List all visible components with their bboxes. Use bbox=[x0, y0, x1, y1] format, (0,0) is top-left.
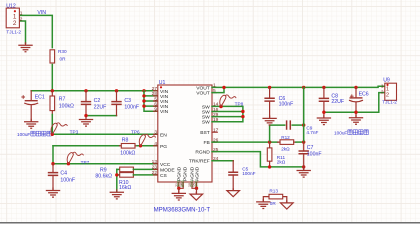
C8 labels bbox=[331, 94, 344, 106]
svg-text:22: 22 bbox=[152, 170, 158, 176]
svg-text:2: 2 bbox=[381, 90, 384, 96]
svg-text:3: 3 bbox=[154, 130, 157, 136]
U1 designator bbox=[159, 80, 166, 86]
TP8 label bbox=[235, 102, 244, 107]
U1 left pin numbers bbox=[152, 86, 158, 176]
svg-text:PG: PG bbox=[160, 144, 167, 150]
U1 bottom pin numbers bbox=[175, 183, 197, 187]
label 100uF chip electrolytic (left) bbox=[17, 131, 51, 137]
test point TP8 bbox=[220, 95, 236, 107]
U12 pin number 1 bbox=[20, 11, 23, 17]
wire VIN from U12 pin1 to R30 bbox=[19, 15, 52, 47]
EC1 designator bbox=[35, 95, 45, 101]
resistor R7 bbox=[50, 91, 55, 115]
R11 labels bbox=[277, 155, 286, 164]
svg-text:R9: R9 bbox=[100, 167, 107, 173]
U12 pin number 2 bbox=[20, 16, 23, 22]
U12 designator bbox=[6, 3, 16, 9]
svg-text:RGND: RGND bbox=[195, 150, 210, 156]
svg-text:1: 1 bbox=[20, 11, 23, 17]
capacitor EC6 bbox=[349, 87, 363, 112]
U1 bottom pins AGND bbox=[192, 182, 197, 188]
svg-text:13: 13 bbox=[152, 159, 158, 165]
svg-text:U9: U9 bbox=[383, 78, 390, 84]
svg-text:C4: C4 bbox=[60, 171, 67, 177]
svg-text:GND: GND bbox=[177, 179, 181, 187]
wire VOUT rail bbox=[212, 86, 385, 87]
svg-text:TP8: TP8 bbox=[235, 102, 244, 107]
C4 labels bbox=[60, 171, 75, 184]
junction dot PG/TP6 bbox=[139, 144, 142, 147]
C6 labels bbox=[279, 96, 294, 108]
net label VIN bbox=[37, 10, 46, 16]
svg-text:EN: EN bbox=[160, 132, 167, 138]
svg-text:VIN: VIN bbox=[160, 109, 169, 115]
svg-text:9: 9 bbox=[154, 107, 157, 113]
junction dots FB node bbox=[268, 140, 306, 143]
junction dots VCC line bbox=[51, 162, 70, 165]
U1 bottom pin names bbox=[177, 166, 201, 181]
resistor R30 bbox=[50, 50, 55, 63]
svg-text:U1: U1 bbox=[159, 80, 166, 86]
junction dots GND link bbox=[322, 111, 358, 114]
U1 bottom pins PGND bbox=[179, 182, 183, 188]
U9 value TJL1-2 bbox=[382, 100, 397, 105]
ground EC6 bbox=[349, 112, 363, 124]
resistor R12 bbox=[278, 140, 296, 145]
ground C8 bbox=[317, 112, 331, 124]
junction dots ground rail bbox=[268, 165, 306, 168]
wire SW pins bus bbox=[212, 106, 243, 121]
ground C5 triangle bbox=[227, 188, 240, 197]
svg-text:AGND: AGND bbox=[194, 166, 200, 181]
C2 labels bbox=[94, 98, 107, 111]
resistor R9 bbox=[117, 167, 158, 172]
R12 labels bbox=[281, 135, 290, 151]
R8 labels bbox=[120, 137, 135, 156]
ground EC1 bbox=[24, 119, 38, 129]
ground AGND triangle bbox=[190, 188, 203, 200]
capacitor C2 bbox=[81, 91, 91, 116]
svg-text:100nF: 100nF bbox=[279, 102, 294, 108]
svg-text:VIN: VIN bbox=[160, 94, 169, 100]
svg-text:VIN: VIN bbox=[160, 99, 169, 105]
svg-text:SW: SW bbox=[202, 115, 210, 121]
EC6 designator bbox=[359, 91, 369, 97]
svg-text:TP6: TP6 bbox=[131, 129, 140, 134]
svg-text:80.6kΩ: 80.6kΩ bbox=[95, 174, 112, 180]
tiny GND net labels AGND bbox=[190, 179, 199, 187]
svg-text:2: 2 bbox=[386, 93, 389, 99]
wire GND link C8 EC6 to U9 pin2 bbox=[324, 93, 385, 113]
C7 labels bbox=[307, 145, 322, 158]
junction dot EN/TP3 bbox=[51, 133, 54, 136]
R9 labels bbox=[95, 167, 112, 179]
U1 value MPM3683GMN-10-T bbox=[154, 206, 211, 213]
resistor R8 bbox=[120, 144, 138, 149]
svg-text:100kΩ: 100kΩ bbox=[120, 150, 135, 156]
svg-text:2kΩ: 2kΩ bbox=[281, 147, 290, 152]
svg-text:100uF: 100uF bbox=[334, 131, 347, 136]
C5 labels bbox=[242, 166, 255, 176]
U1 right pin names bbox=[189, 85, 210, 164]
capacitor C4 bbox=[48, 164, 58, 190]
wire PG line left bbox=[53, 145, 120, 147]
svg-text:GND: GND bbox=[190, 179, 194, 187]
U1 left pin names bbox=[160, 89, 175, 179]
wire VOUT pin2 riser bbox=[212, 87, 224, 92]
svg-text:16kΩ: 16kΩ bbox=[119, 185, 131, 191]
wire VCC line bbox=[53, 163, 158, 165]
resistor R10 bbox=[117, 173, 158, 178]
svg-text:VOUT: VOUT bbox=[196, 85, 210, 91]
ground U12 bbox=[18, 42, 32, 52]
svg-text:1: 1 bbox=[386, 87, 389, 93]
wire C2-C3 ground link bbox=[86, 115, 117, 117]
junction dot TP8 bbox=[219, 105, 223, 109]
svg-text:SW: SW bbox=[202, 104, 210, 110]
svg-text:VCC: VCC bbox=[160, 162, 171, 168]
svg-text:R7: R7 bbox=[59, 96, 66, 102]
svg-text:R13: R13 bbox=[269, 189, 278, 194]
svg-text:0R: 0R bbox=[60, 56, 67, 61]
svg-text:MPM3683GMN-10-T: MPM3683GMN-10-T bbox=[154, 206, 211, 213]
svg-text:C7: C7 bbox=[307, 145, 314, 151]
svg-text:C3: C3 bbox=[124, 98, 131, 104]
junction dot C2 ground bbox=[84, 114, 87, 117]
svg-text:6: 6 bbox=[154, 101, 157, 107]
svg-text:SW: SW bbox=[202, 110, 210, 116]
svg-text:GND: GND bbox=[194, 179, 198, 187]
svg-text:VIN: VIN bbox=[37, 10, 46, 16]
svg-text:TJL1-2: TJL1-2 bbox=[6, 29, 21, 34]
junction dot AGND bbox=[195, 187, 198, 190]
junction dot C9 right bbox=[302, 123, 305, 126]
resistor R11 bbox=[267, 142, 272, 167]
capacitor C5 bbox=[228, 161, 238, 190]
wire R9 R10 to ground bbox=[116, 169, 118, 191]
svg-text:TP3: TP3 bbox=[70, 129, 79, 134]
TP3 label bbox=[70, 129, 79, 134]
U9 pin number 2 bbox=[381, 90, 384, 96]
svg-text:4.7nF: 4.7nF bbox=[306, 130, 318, 135]
capacitor C6 bbox=[264, 87, 274, 118]
junction dots VOUT rail bbox=[222, 86, 357, 89]
U1 pin stubs (red pin ends) bbox=[153, 87, 217, 174]
svg-text:PGND: PGND bbox=[177, 166, 183, 181]
svg-text:4: 4 bbox=[154, 141, 157, 147]
wire EN line bbox=[52, 115, 158, 135]
C3 labels bbox=[124, 98, 139, 111]
svg-text:EC1: EC1 bbox=[35, 95, 45, 101]
svg-text:MODE: MODE bbox=[160, 167, 175, 173]
junction dots SW bus bbox=[241, 110, 244, 119]
U12 value TJL1-2 bbox=[6, 29, 21, 34]
junction dot R10 bbox=[115, 173, 118, 176]
window bottom edge bbox=[0, 222, 420, 224]
svg-text:2kΩ: 2kΩ bbox=[277, 159, 286, 164]
wire FB to C9 branch bbox=[270, 125, 285, 142]
op-amp U1 body bbox=[158, 85, 212, 182]
wire U12 pin2 to ground bbox=[19, 21, 25, 43]
R30 labels bbox=[58, 49, 67, 61]
svg-text:EC6: EC6 bbox=[359, 91, 369, 97]
test point TP3 bbox=[51, 123, 67, 135]
test point TP6 bbox=[139, 134, 155, 146]
svg-text:100nF: 100nF bbox=[307, 152, 322, 158]
svg-text:TRK/REF: TRK/REF bbox=[189, 159, 210, 165]
connector U9 bbox=[385, 83, 397, 100]
C9 labels bbox=[306, 125, 318, 135]
ground C2 bbox=[79, 117, 93, 127]
svg-text:TP7: TP7 bbox=[81, 160, 90, 165]
svg-text:PGND: PGND bbox=[182, 166, 188, 181]
svg-text:100nF: 100nF bbox=[124, 104, 139, 110]
svg-text:C2: C2 bbox=[94, 98, 101, 104]
capacitor C8 bbox=[319, 87, 329, 112]
tiny GND net labels PGND bbox=[177, 179, 185, 187]
svg-text:2: 2 bbox=[13, 20, 17, 27]
connector U12 bbox=[6, 8, 19, 28]
ground C7 bbox=[297, 167, 311, 177]
svg-text:100kΩ: 100kΩ bbox=[59, 104, 74, 110]
U9 designator bbox=[383, 78, 390, 84]
ground C4 bbox=[46, 188, 60, 198]
capacitor C3 bbox=[111, 91, 121, 116]
svg-text:R12: R12 bbox=[281, 135, 290, 140]
svg-text:5: 5 bbox=[154, 96, 157, 102]
R13 labels bbox=[269, 189, 278, 206]
U9 pin number 1 bbox=[381, 84, 384, 90]
TP6 label bbox=[131, 129, 140, 134]
svg-text:100nF: 100nF bbox=[242, 171, 255, 176]
svg-text:SW: SW bbox=[202, 120, 210, 126]
capacitor C9 bbox=[287, 120, 304, 129]
svg-text:TJL1-2: TJL1-2 bbox=[382, 100, 397, 105]
ground R13 right triangle bbox=[281, 200, 294, 209]
svg-text:VIN: VIN bbox=[160, 104, 169, 110]
test point TP7 bbox=[67, 152, 83, 164]
wire VIN rail bbox=[31, 90, 158, 92]
wire RGND to ground rail bbox=[212, 152, 304, 167]
wire FB line bbox=[212, 141, 278, 143]
svg-text:VIN: VIN bbox=[160, 89, 169, 95]
wire VOUT to FB divider vertical bbox=[303, 87, 305, 142]
svg-text:22UF: 22UF bbox=[94, 104, 107, 110]
ground R13 left bbox=[256, 199, 270, 209]
U1 right pin numbers bbox=[213, 83, 219, 162]
label 100uF chip electrolytic (right) bbox=[334, 130, 368, 136]
svg-text:GND: GND bbox=[181, 179, 185, 187]
svg-text:22UF: 22UF bbox=[331, 99, 344, 105]
svg-text:BST: BST bbox=[200, 130, 210, 136]
svg-text:U12: U12 bbox=[6, 3, 16, 9]
svg-text:28: 28 bbox=[152, 91, 158, 97]
ground C6 bbox=[262, 115, 276, 125]
wire TRK/REF to C5 bbox=[212, 160, 233, 162]
junction dots VIN bus bbox=[142, 94, 145, 108]
svg-text:100uF: 100uF bbox=[17, 132, 30, 137]
svg-text:0R: 0R bbox=[270, 201, 277, 206]
svg-text:VOUT: VOUT bbox=[196, 91, 210, 97]
junction dot PGND bbox=[177, 187, 180, 190]
capacitor EC1 bbox=[22, 91, 38, 121]
wire R30 to VIN rail bbox=[51, 65, 53, 91]
TP7 label bbox=[81, 160, 90, 165]
capacitor C7 bbox=[299, 142, 309, 167]
svg-text:1: 1 bbox=[381, 84, 384, 90]
svg-text:2: 2 bbox=[20, 16, 23, 22]
svg-text:100nF: 100nF bbox=[60, 177, 75, 183]
svg-text:R30: R30 bbox=[58, 49, 67, 54]
junction dots on VIN rail bbox=[51, 89, 146, 92]
R7 labels bbox=[59, 96, 74, 109]
pin BST stub bbox=[212, 131, 217, 133]
ground PGND bbox=[172, 188, 186, 200]
wire VIN bus vertical to U1 pins bbox=[144, 91, 158, 111]
svg-text:23: 23 bbox=[152, 165, 158, 171]
svg-text:CS: CS bbox=[160, 173, 168, 179]
ground R9 R10 bbox=[110, 189, 124, 199]
R10 labels bbox=[119, 180, 131, 191]
svg-text:27: 27 bbox=[152, 86, 158, 92]
svg-text:R8: R8 bbox=[122, 137, 129, 143]
wire R12 right to C7 node bbox=[296, 141, 304, 143]
svg-text:FB: FB bbox=[204, 140, 210, 146]
wire PG corner down to VCC line bbox=[52, 146, 54, 164]
resistor R13 bbox=[263, 194, 287, 202]
wire PG line right bbox=[137, 145, 158, 147]
